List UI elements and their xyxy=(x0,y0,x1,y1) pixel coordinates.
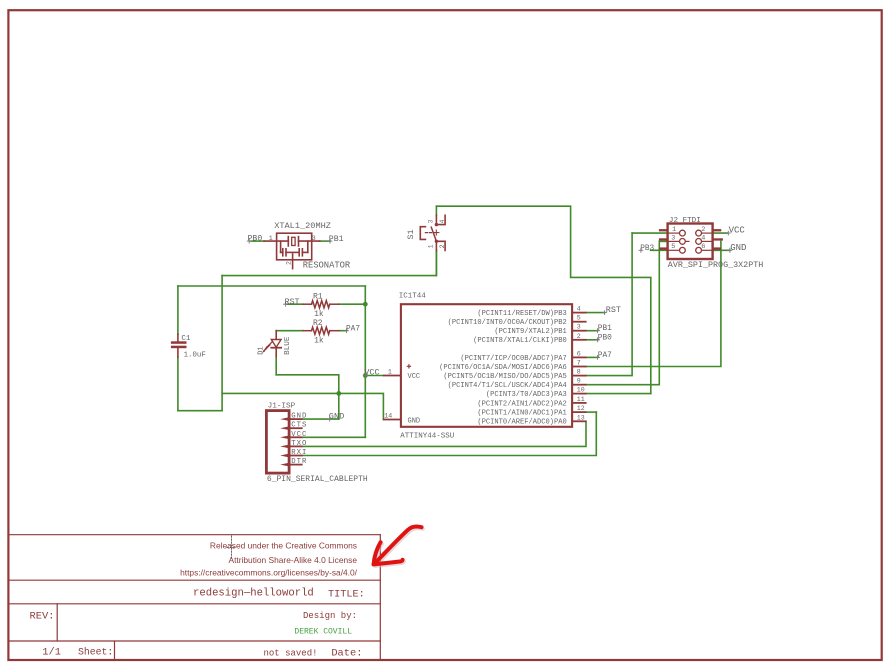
J2 pin numbers xyxy=(671,226,705,251)
J2 pad bars xyxy=(659,229,723,250)
J1 pin name labels xyxy=(291,413,307,467)
svg-text:5: 5 xyxy=(671,243,675,251)
svg-text:IC1T44: IC1T44 xyxy=(399,293,427,301)
resistor R1 xyxy=(303,301,339,308)
svg-text:2: 2 xyxy=(701,226,705,234)
wire IC pin7 to J2 pin4 xyxy=(587,241,721,366)
svg-text:TITLE:: TITLE: xyxy=(328,590,365,601)
svg-text:8: 8 xyxy=(577,369,581,376)
S1 top contact dot xyxy=(435,223,438,226)
svg-text:RESONATOR: RESONATOR xyxy=(303,260,351,270)
svg-text:redesign—helloworld: redesign—helloworld xyxy=(193,587,314,599)
svg-text:BLUE: BLUE xyxy=(284,336,292,355)
wire J2 pin5 PB3 xyxy=(651,249,668,251)
svg-text:AVR_SPI_PROG_3X2PTH: AVR_SPI_PROG_3X2PTH xyxy=(668,260,764,270)
wire J1 RXI riser xyxy=(303,412,597,455)
svg-text:1.0uF: 1.0uF xyxy=(184,351,206,359)
IC right pin stubs xyxy=(572,313,587,422)
svg-text:14: 14 xyxy=(384,413,392,420)
svg-text:11: 11 xyxy=(577,396,585,403)
svg-text:GND: GND xyxy=(329,411,344,421)
svg-text:S1: S1 xyxy=(406,229,416,239)
IC1 body xyxy=(401,304,572,427)
svg-text:PB3: PB3 xyxy=(640,245,654,253)
fold mark dotted cross xyxy=(227,536,236,560)
svg-text:R1: R1 xyxy=(313,292,323,301)
wire J1 TXO to IC pin13 xyxy=(303,421,586,446)
svg-text:10: 10 xyxy=(577,387,585,394)
svg-text:2: 2 xyxy=(285,261,292,265)
svg-text:TXO: TXO xyxy=(291,440,307,448)
svg-text:4: 4 xyxy=(439,219,446,223)
svg-text:DTR: DTR xyxy=(291,458,307,466)
connector J1 ISP xyxy=(266,403,368,485)
S1 bottom contact dot xyxy=(435,240,438,243)
svg-text:2: 2 xyxy=(577,333,581,340)
svg-text:3: 3 xyxy=(312,235,316,242)
svg-text:1: 1 xyxy=(672,226,676,234)
J2 body xyxy=(668,224,713,260)
svg-text:XTAL1_20MHZ: XTAL1_20MHZ xyxy=(274,221,331,231)
svg-text:PA7: PA7 xyxy=(598,352,612,360)
wire IC pin10 horizontal xyxy=(587,393,651,395)
wire IC pin2 to PB0 label xyxy=(587,339,598,341)
svg-text:(PCINT2/AIN1/ADC2)PA2: (PCINT2/AIN1/ADC2)PA2 xyxy=(477,400,566,408)
svg-text:J1-ISP: J1-ISP xyxy=(268,403,296,411)
wire RST to R1 xyxy=(287,303,303,305)
J1 pin stubs xyxy=(289,419,303,465)
wire J2 pin3 entry xyxy=(659,240,667,242)
wire C1 top xyxy=(177,286,179,334)
wire VCC top horizontal C1 to vertical xyxy=(178,285,365,287)
svg-text:1/1: 1/1 xyxy=(42,646,61,658)
wire VCC to J1 VCC pin xyxy=(303,436,366,438)
svg-text:7: 7 xyxy=(577,360,581,367)
plus sign xyxy=(407,364,411,368)
wire GND horizontal to IC pin14 xyxy=(222,393,383,419)
IC pin 14 GND stub xyxy=(383,419,401,421)
IC right pin numbers xyxy=(577,306,585,422)
svg-text:https://creativecommons.org/li: https://creativecommons.org/licenses/by-… xyxy=(180,568,358,578)
title block grid lines xyxy=(8,535,380,660)
svg-text:VCC: VCC xyxy=(364,367,379,377)
svg-text:RST: RST xyxy=(606,305,621,315)
svg-text:Sheet:: Sheet: xyxy=(78,646,113,657)
wire R2 to PA7 label xyxy=(339,330,347,332)
svg-text:CTS: CTS xyxy=(291,422,307,430)
svg-text:1: 1 xyxy=(388,369,392,376)
svg-text:REV:: REV: xyxy=(30,611,55,623)
switch S1 xyxy=(420,215,445,250)
svg-text:RXI: RXI xyxy=(291,449,307,457)
junction node GND cross xyxy=(336,391,341,396)
TITLEBLOCK xyxy=(8,535,380,660)
wire R2 left xyxy=(276,330,303,332)
svg-text:1k: 1k xyxy=(314,337,324,346)
wire VCC main vertical xyxy=(364,286,366,437)
junction node VCC pin1 xyxy=(363,373,368,378)
svg-text:6: 6 xyxy=(701,243,705,251)
connector J2 FTDI xyxy=(659,217,763,270)
J1 body xyxy=(266,411,289,474)
svg-text:(PCINT5/OC1B/MISO/DO/ADC5)PA5: (PCINT5/OC1B/MISO/DO/ADC5)PA5 xyxy=(443,373,566,381)
ARROW xyxy=(374,526,424,566)
svg-text:VCC: VCC xyxy=(408,373,421,381)
LED D1 xyxy=(262,331,281,357)
svg-text:6: 6 xyxy=(577,350,581,357)
wire J1 GND pin xyxy=(303,418,339,420)
wire C1 bottom xyxy=(177,357,179,411)
svg-text:4: 4 xyxy=(701,235,705,243)
svg-text:GND: GND xyxy=(291,413,307,421)
svg-text:(PCINT11/RESET/DW)PB3: (PCINT11/RESET/DW)PB3 xyxy=(477,310,566,318)
svg-text:ATTINY44-SSU: ATTINY44-SSU xyxy=(400,432,454,440)
svg-text:D1: D1 xyxy=(257,346,265,354)
IC pin function labels xyxy=(439,310,567,427)
svg-text:VCC: VCC xyxy=(729,226,746,236)
svg-text:not saved!: not saved! xyxy=(264,648,318,658)
svg-text:(PCINT3/T0/ADC3)PA3: (PCINT3/T0/ADC3)PA3 xyxy=(486,391,567,399)
svg-text:5: 5 xyxy=(577,315,581,322)
svg-text:(PCINT7/ICP/OC0B/ADC7)PA7: (PCINT7/ICP/OC0B/ADC7)PA7 xyxy=(460,355,566,363)
wire S1 top to IC pin10 xyxy=(436,206,650,393)
wire J2 pin6 GND xyxy=(713,249,730,251)
wire J2 pin1 entry xyxy=(632,232,668,234)
svg-text:(PCINT9/XTAL2)PB1: (PCINT9/XTAL2)PB1 xyxy=(494,328,566,336)
svg-text:6_PIN_SERIAL_CABLEPTH: 6_PIN_SERIAL_CABLEPTH xyxy=(267,475,368,484)
wire IC pin12 stub to riser xyxy=(587,411,597,413)
label crosses xyxy=(247,231,733,422)
svg-text:C1: C1 xyxy=(181,335,191,343)
wire S1 top pin xyxy=(435,206,437,215)
svg-text:GND: GND xyxy=(408,417,421,425)
IC pin 1 VCC stub xyxy=(383,375,401,377)
IC U1 ATTINY44 xyxy=(383,293,587,441)
wire IC pin9 to J2 pin3 xyxy=(587,241,660,384)
wire IC pin8 to J2 pin1 xyxy=(587,233,633,376)
J1 pin arrows xyxy=(280,417,288,466)
svg-text:Date:: Date: xyxy=(331,648,362,660)
wire GND left vertical xyxy=(221,276,223,411)
svg-text:RST: RST xyxy=(285,297,300,307)
svg-text:1k: 1k xyxy=(314,310,324,319)
svg-text:PB1: PB1 xyxy=(329,235,344,244)
junction node VCC-R1 xyxy=(363,302,368,307)
wire resonator right PB1 xyxy=(320,240,330,242)
svg-text:DEREK COVILL: DEREK COVILL xyxy=(294,627,352,636)
wire J2 pin2 VCC xyxy=(713,232,728,234)
svg-text:(PCINT0/AREF/ADC0)PA0: (PCINT0/AREF/ADC0)PA0 xyxy=(477,419,566,427)
wire R1 to VCC junction xyxy=(339,303,366,305)
svg-text:PB1: PB1 xyxy=(598,325,612,333)
svg-text:VCC: VCC xyxy=(291,431,307,439)
wire IC pin4 to RST label xyxy=(587,312,605,314)
wire LED to GND vertical xyxy=(276,375,339,419)
svg-text:9: 9 xyxy=(577,378,581,385)
J2 pin leads xyxy=(668,233,713,250)
svg-text:3: 3 xyxy=(427,219,434,223)
svg-text:J2_FTDI: J2_FTDI xyxy=(669,217,701,225)
svg-text:(PCINT1/AIN0/ADC1)PA1: (PCINT1/AIN0/ADC1)PA1 xyxy=(477,410,566,418)
svg-text:12: 12 xyxy=(577,405,585,412)
svg-text:Released under the Creative Co: Released under the Creative Commons xyxy=(210,541,357,551)
svg-text:(PCINT10/INT0/OC0A/CKOUT)PB2: (PCINT10/INT0/OC0A/CKOUT)PB2 xyxy=(448,319,567,327)
wire GND bottom to C1 xyxy=(178,410,222,412)
svg-text:3: 3 xyxy=(577,324,581,331)
wire VCC to IC pin1 xyxy=(365,375,383,377)
svg-text:GND: GND xyxy=(730,243,746,253)
svg-text:1: 1 xyxy=(427,244,434,248)
resistor R2 xyxy=(303,327,339,334)
wire IC pin6 to PA7 label xyxy=(587,356,598,358)
J2 pin circles xyxy=(680,230,702,253)
svg-text:Design by:: Design by: xyxy=(303,611,357,621)
wire S1 bottom green xyxy=(435,251,437,276)
red annotation arrow shadow xyxy=(375,528,423,566)
svg-text:1: 1 xyxy=(269,235,273,242)
red annotation arrow xyxy=(374,526,422,564)
resonator XTAL1 xyxy=(264,233,320,268)
wire S1 bottom to left xyxy=(222,251,436,276)
svg-text:(PCINT6/OC1A/SDA/MOSI/ADC6)PA6: (PCINT6/OC1A/SDA/MOSI/ADC6)PA6 xyxy=(439,364,567,372)
svg-text:13: 13 xyxy=(577,414,585,421)
svg-text:3: 3 xyxy=(671,235,675,243)
svg-text:(PCINT8/XTAL1/CLKI)PB0: (PCINT8/XTAL1/CLKI)PB0 xyxy=(473,337,567,345)
svg-text:4: 4 xyxy=(577,306,581,313)
wire resonator left PB0 xyxy=(251,240,264,242)
wire LED cathode down xyxy=(275,357,277,375)
svg-text:Attribution Share-Alike 4.0 Li: Attribution Share-Alike 4.0 License xyxy=(229,555,358,565)
svg-text:2: 2 xyxy=(439,244,446,248)
svg-text:R2: R2 xyxy=(313,319,323,328)
svg-text:PA7: PA7 xyxy=(346,325,360,333)
capacitor C1 xyxy=(171,334,187,357)
svg-text:PB0: PB0 xyxy=(598,334,612,342)
svg-text:(PCINT4/T1/SCL/USCK/ADC4)PA4: (PCINT4/T1/SCL/USCK/ADC4)PA4 xyxy=(448,382,567,390)
svg-text:PB0: PB0 xyxy=(248,235,263,244)
wire IC pin3 to PB1 label xyxy=(587,330,598,332)
